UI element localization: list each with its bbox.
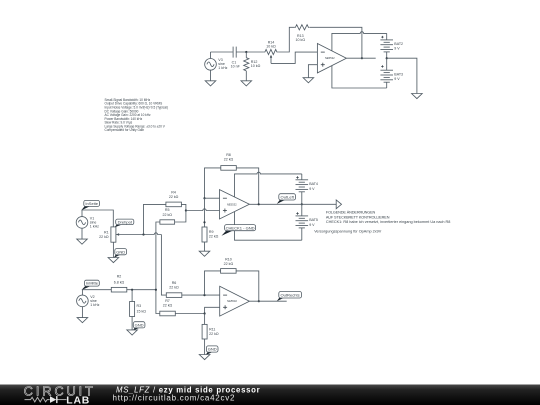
svg-text:22 kΩ: 22 kΩ <box>224 158 234 162</box>
svg-text:22 kΩ: 22 kΩ <box>163 304 173 308</box>
annotation arrow <box>336 200 341 209</box>
svg-text:FOLGENDE ÄNDERRUNGEN: FOLGENDE ÄNDERRUNGEN <box>326 211 376 215</box>
node (C1/R12/R14) <box>245 51 247 53</box>
wire (minus row) <box>205 197 220 199</box>
resistor R3 <box>130 290 147 330</box>
wire <box>181 204 186 210</box>
voltage source V3 <box>205 52 228 81</box>
text: NE5532 specifications <box>105 98 168 132</box>
wire (R8 left leg) <box>205 168 221 198</box>
text: German annotations <box>314 211 450 234</box>
node (inverting node) <box>203 197 205 199</box>
svg-text:CHECK1 - GND: CHECK1 - GND <box>226 225 255 230</box>
CircuitLab logo <box>24 385 96 405</box>
svg-text:9 V: 9 V <box>394 47 400 51</box>
battery BAT3 9V <box>380 58 403 88</box>
ground (V3) <box>205 81 216 86</box>
wire <box>175 211 186 223</box>
node label OutLeft <box>277 194 296 204</box>
svg-text:10 kΩ: 10 kΩ <box>296 38 306 42</box>
wire (R7 to + input) <box>175 307 219 313</box>
svg-text:NE5532: NE5532 <box>325 56 335 60</box>
wire (riser B: wiper row to R6) <box>161 235 166 296</box>
svg-text:15 kΩ: 15 kΩ <box>137 309 147 313</box>
node (feedback junction) <box>258 203 260 205</box>
svg-text:22 kΩ: 22 kΩ <box>169 286 179 290</box>
svg-text:NE5532: NE5532 <box>227 202 237 206</box>
wire (output row) <box>249 203 336 205</box>
wire (midpoint to ground) <box>387 58 417 93</box>
resistor R5 <box>160 208 175 224</box>
wire (R4 branch) <box>144 204 166 234</box>
svg-text:LAB: LAB <box>66 395 90 405</box>
node label Drehpot <box>114 219 134 227</box>
wire (V- rail) <box>235 212 302 240</box>
resistor R10 <box>221 257 237 273</box>
wire <box>82 210 113 227</box>
ground (V1) <box>77 239 88 244</box>
resistor R7 <box>160 299 176 316</box>
svg-text:6.8 kΩ: 6.8 kΩ <box>114 280 125 284</box>
svg-text:1 kHz: 1 kHz <box>90 225 99 229</box>
svg-text:22 kΩ: 22 kΩ <box>162 213 172 217</box>
node label OutRechts <box>277 292 302 302</box>
battery BAT5 9V <box>296 204 318 240</box>
svg-text:OutRechts: OutRechts <box>281 292 300 297</box>
resistor R8 <box>221 153 237 170</box>
ground (R12) <box>241 81 252 86</box>
svg-text:BAT4: BAT4 <box>309 182 318 186</box>
wire (V+ rail with hop) <box>332 32 387 51</box>
svg-text:R9: R9 <box>209 230 214 234</box>
svg-text:http://circuitlab.com/ca42cv2: http://circuitlab.com/ca42cv2 <box>113 394 236 403</box>
svg-text:1 kHz: 1 kHz <box>90 303 99 307</box>
wire (+ input to ground) <box>308 65 317 78</box>
ground (op-amp + input) <box>303 78 314 83</box>
GND label (R3) <box>133 322 145 331</box>
svg-text:NE5532: NE5532 <box>227 299 237 303</box>
capacitor C1 <box>231 47 241 69</box>
wire <box>82 289 111 291</box>
svg-text:R11: R11 <box>209 328 215 332</box>
svg-text:10 nF: 10 nF <box>231 65 241 69</box>
op-amp U3 NE5532 <box>220 286 250 316</box>
ground (R11) <box>199 355 210 360</box>
svg-text:10 kΩ: 10 kΩ <box>251 64 261 68</box>
svg-text:22 kΩ: 22 kΩ <box>209 332 219 336</box>
resistor R12 <box>244 52 261 81</box>
wire <box>236 51 264 53</box>
svg-text:CHECK1: R8 habe ich versetzt,: CHECK1: R8 habe ich versetzt, invertiert… <box>326 220 451 224</box>
ground (R1) <box>108 258 119 263</box>
svg-text:R8: R8 <box>226 153 231 157</box>
svg-text:R6: R6 <box>172 281 177 285</box>
node label InMitte <box>81 280 99 290</box>
node (R3 tap) <box>131 289 133 291</box>
svg-text:R2: R2 <box>117 275 122 279</box>
potentiometer R1 <box>99 227 119 258</box>
node label CHECK1 - GND <box>222 225 256 236</box>
node (output / supply midpoint) <box>301 203 303 205</box>
resistor R6 <box>166 281 182 297</box>
GND label (R11) <box>205 346 218 355</box>
wire (wiper row with hop over riser A) <box>116 233 161 235</box>
op-amp U1 NE5532 <box>317 44 346 73</box>
wire (V- rail) <box>332 66 387 88</box>
wire <box>211 51 233 53</box>
svg-text:9 V: 9 V <box>309 223 315 227</box>
svg-text:R7: R7 <box>165 299 170 303</box>
svg-text:22 kΩ: 22 kΩ <box>169 195 179 199</box>
resistor R2 <box>111 275 127 292</box>
svg-text:InMitte: InMitte <box>86 281 99 286</box>
svg-text:InSeite: InSeite <box>85 201 98 206</box>
svg-text:GND: GND <box>208 347 217 352</box>
wire (inverting node down to R9) <box>204 198 206 227</box>
node (R4 tap on wiper row) <box>142 233 144 235</box>
voltage source V1 <box>76 210 99 239</box>
op-amp U2 NE5532 <box>220 190 250 219</box>
svg-text:1 kHz: 1 kHz <box>218 66 227 70</box>
wire (R10 right leg) <box>236 271 259 301</box>
node (inverting node) <box>203 294 205 296</box>
wire (minus row) <box>182 294 220 296</box>
svg-text:GND: GND <box>116 249 125 254</box>
node label InSeite <box>81 200 99 210</box>
resistor R4 <box>166 191 182 207</box>
svg-text:BAT2: BAT2 <box>394 42 403 46</box>
svg-text:BAT5: BAT5 <box>309 218 318 222</box>
wire (output stub) <box>346 57 375 59</box>
svg-text:R10: R10 <box>225 257 232 261</box>
GND label (R1) <box>114 249 127 258</box>
node (supply midpoint) <box>386 57 388 59</box>
ground (R3) <box>127 330 138 335</box>
potentiometer R14 <box>264 40 278 63</box>
svg-text:9 V: 9 V <box>309 187 315 191</box>
wire (R8 right leg) <box>236 168 258 204</box>
ground (supply midpoint) <box>412 94 423 99</box>
svg-text:22 kΩ: 22 kΩ <box>224 262 234 266</box>
svg-text:9 V: 9 V <box>394 77 400 81</box>
node (mid node on riser A) <box>155 289 157 291</box>
node <box>203 221 205 223</box>
voltage source V2 <box>77 290 100 318</box>
node (+ summing node) <box>185 209 187 211</box>
svg-text:R1: R1 <box>104 230 109 234</box>
ground (R9) <box>199 251 210 256</box>
node (feedback/output junction) <box>361 57 363 59</box>
wire <box>278 27 294 52</box>
svg-text:GND: GND <box>135 322 144 327</box>
svg-text:R3: R3 <box>137 304 142 308</box>
wire (feedback) <box>310 27 362 58</box>
svg-text:22 kΩ: 22 kΩ <box>209 234 219 238</box>
svg-text:BAT3: BAT3 <box>394 72 403 76</box>
footer title text <box>113 385 261 402</box>
battery BAT4 9V <box>296 174 318 204</box>
svg-text:R5: R5 <box>165 208 170 212</box>
wire (+ row with hop) <box>186 209 220 211</box>
resistor R13 <box>294 25 309 43</box>
svg-text:OutLeft: OutLeft <box>281 195 295 200</box>
svg-text:Compensated for Unity Gain: Compensated for Unity Gain <box>105 128 145 132</box>
battery BAT2 9V <box>380 33 403 58</box>
svg-text:Versorgungsspannung für OpAmp: Versorgungsspannung für OpAmp 2x9V <box>314 229 382 233</box>
svg-text:22 kΩ: 22 kΩ <box>99 235 109 239</box>
svg-text:Drehpot: Drehpot <box>118 219 133 224</box>
wire <box>127 289 156 291</box>
wire (R10 left leg) <box>205 271 221 295</box>
resistor R11 <box>202 314 219 355</box>
node (+ node) <box>204 312 206 314</box>
svg-text:R4: R4 <box>171 191 176 195</box>
node (output/feedback junction) <box>258 300 260 302</box>
resistor R9 <box>202 227 219 251</box>
wire (wiper to op-amp inverting input) <box>271 52 317 63</box>
wire (V+ rail with hop over R8 leg) <box>235 172 302 197</box>
wire (output) <box>249 300 286 302</box>
svg-text:AUF STECKBRETT KONTROLLIEREN: AUF STECKBRETT KONTROLLIEREN <box>326 215 390 219</box>
svg-text:10 kΩ: 10 kΩ <box>266 45 276 49</box>
wire (riser A: R5 to R2 row to R7) <box>156 222 160 314</box>
ground (V2) <box>77 318 88 323</box>
